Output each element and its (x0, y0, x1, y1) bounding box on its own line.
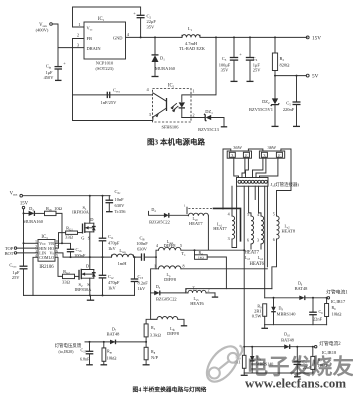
resistor Rvb 10 (45, 206, 63, 243)
node 5V output (274, 75, 276, 77)
capacitor Cvcc2 1uF 25V (9, 263, 27, 296)
node 15V supply (20, 202, 29, 266)
node Vaux (bottom) (10, 192, 23, 198)
op-amp U3 / IC3 IR2106 box (35, 235, 58, 270)
svg-text:5: 5 (180, 243, 182, 248)
wire lamp left wrap (223, 149, 231, 209)
svg-text:3: 3 (228, 236, 230, 241)
svg-text:1: 1 (78, 22, 80, 27)
zener DZ2 BZV55C5V1 (249, 76, 279, 127)
svg-text:HEAT6: HEAT6 (250, 262, 265, 267)
svg-text:470pF: 470pF (108, 240, 120, 245)
svg-text:33Ω: 33Ω (62, 280, 70, 285)
capacitor Cvcc 1nF/25V inline (101, 88, 121, 106)
wire feedback vertical from T1 (151, 293, 157, 319)
svg-text:10kΩ: 10kΩ (332, 311, 343, 316)
capacitor C12 22nF (sense2) (294, 346, 313, 373)
svg-text:450V: 450V (44, 75, 55, 80)
svg-text:8: 8 (182, 263, 184, 268)
wire bold lamp feed (213, 208, 241, 241)
svg-text:IC3: IC3 (41, 235, 48, 240)
wire T1 primary pin1 down (151, 269, 156, 293)
svg-text:36W: 36W (267, 145, 276, 150)
svg-text:36W: 36W (233, 145, 242, 150)
wire right side mesh (272, 239, 277, 289)
svg-text:1kV: 1kV (108, 246, 116, 251)
op-amp U1 / IC1 NCP1010 box (77, 17, 130, 71)
capacitor Cr3 8.2nF 1kV (131, 256, 149, 295)
svg-text:3.3kΩ: 3.3kΩ (150, 332, 162, 337)
svg-text:DIFF8: DIFF8 (164, 277, 177, 282)
capacitor Cr1 470pF 1kV (99, 196, 120, 257)
svg-text:MURA160: MURA160 (23, 219, 44, 224)
resistor R14 sense2 2R1 (234, 346, 246, 373)
svg-text:灯管电压反馈: 灯管电压反馈 (55, 342, 82, 349)
svg-text:1: 1 (154, 263, 156, 268)
winding W2 vertical (247, 212, 254, 249)
svg-text:3: 3 (257, 238, 259, 243)
svg-text:DIFF8: DIFF8 (164, 243, 177, 248)
diode D5 BZG05C22 (151, 284, 188, 301)
svg-text:15V: 15V (312, 36, 321, 42)
svg-text:LO: LO (49, 255, 54, 260)
wire DRAIN (58, 47, 84, 49)
svg-text:IR2106: IR2106 (39, 265, 54, 270)
capacitor C2 22uF 35V (133, 11, 156, 38)
svg-text:4: 4 (156, 243, 158, 248)
svg-text:J1(灯管连接器): J1(灯管连接器) (271, 181, 300, 188)
svg-text:8.2nF: 8.2nF (138, 280, 149, 285)
svg-text:BAT48: BAT48 (281, 337, 295, 342)
svg-text:COM: COM (39, 255, 49, 260)
wire pin1 Vcc loop (73, 7, 141, 27)
svg-text:HEAT8: HEAT8 (282, 228, 296, 233)
svg-text:22nF: 22nF (313, 316, 323, 321)
svg-text:10Ω: 10Ω (54, 206, 62, 211)
ground symbol (90, 295, 92, 300)
svg-text:1mH: 1mH (118, 261, 128, 266)
node 15V output (306, 36, 309, 39)
resistor RG1 33 (55, 225, 83, 248)
svg-text:FB: FB (87, 36, 92, 41)
svg-text:BZV55C13: BZV55C13 (198, 127, 219, 132)
node TOP input (5, 246, 38, 251)
resistor R10 N/P (143, 347, 159, 365)
svg-text:2: 2 (192, 112, 194, 117)
svg-text:5: 5 (273, 212, 275, 217)
svg-text:1: 1 (192, 88, 194, 93)
wire FB vertical (73, 39, 85, 95)
transistor phototransistor inside IC2 (153, 93, 167, 121)
wire dashed coupling line (188, 208, 212, 210)
wire VB net and capacitor Cvb 100nF (55, 242, 86, 257)
svg-text:5V: 5V (312, 74, 319, 80)
capacitor C3 100uF 35V (219, 37, 243, 81)
wire IC2 pin1 drop from rail (182, 37, 216, 101)
zener DZ1 BZV55C13 (198, 109, 227, 132)
svg-text:6: 6 (273, 237, 275, 242)
svg-text:Tc356: Tc356 (115, 209, 127, 214)
resistor RG2 33 (55, 257, 79, 284)
svg-text:IC1: IC1 (98, 17, 105, 22)
transformer T1 primary DIFF8 (154, 251, 267, 282)
winding heater upper-left horizontal HEAT7 (149, 207, 209, 250)
lamp LP2 36W (259, 145, 284, 158)
transistor S2 IRF830A (75, 257, 96, 295)
resistor R9 3.3k (144, 319, 161, 347)
node BOT input (5, 251, 38, 256)
wire feedback to left block (85, 341, 146, 343)
resistor R12 10k (sense2) (311, 347, 328, 373)
ground symbol at T2 (214, 293, 216, 297)
wire GND rail 15V (126, 36, 308, 38)
resistor R13 2R1 0.5W (sense1) (252, 303, 267, 324)
svg-text:25V: 25V (12, 275, 20, 280)
label block HEAT7 / Ls3 Ls4 / HEAT6 (244, 251, 264, 267)
LED inside IC2 (171, 102, 185, 117)
svg-text:灯管电流1: 灯管电流1 (326, 288, 348, 295)
resistor R12b 10k (feedback) (101, 341, 118, 365)
resistor R2 820 (272, 37, 290, 75)
lamp voltage feedback block text (55, 342, 82, 355)
winding W1 HEAT7 vertical (213, 212, 234, 242)
svg-text:BZG05C22: BZG05C22 (156, 296, 177, 301)
connector J1 (237, 178, 300, 188)
transformer T2 heater winding HEAT6 (185, 285, 215, 306)
svg-text:22μF: 22μF (147, 19, 157, 24)
diode D11 MBRS140 (sense2) (250, 346, 273, 373)
svg-text:10nF: 10nF (115, 197, 125, 202)
diode D7 BAT48 (feedback) (107, 326, 121, 344)
svg-text:6: 6 (247, 238, 249, 243)
svg-text:BZV55C5V1: BZV55C5V1 (249, 107, 273, 112)
wire Vaux bus (23, 195, 111, 197)
svg-text:820Ω: 820Ω (280, 62, 291, 67)
svg-text:630V: 630V (137, 247, 148, 252)
inductor L1 4.7mH (179, 26, 206, 51)
wire ground bus (24, 294, 135, 296)
svg-text:SFH6106: SFH6106 (161, 125, 179, 130)
diode D2 MURA160 (23, 206, 44, 224)
watermark logo (201, 341, 244, 387)
inductor Lres 1mH (112, 248, 134, 266)
svg-text:630V: 630V (115, 203, 126, 208)
svg-text:IC2: IC2 (168, 84, 175, 89)
lamp LP1 36W (227, 145, 251, 158)
svg-text:100nF: 100nF (136, 241, 148, 246)
svg-text:MURA160: MURA160 (155, 66, 176, 71)
svg-text:35V: 35V (147, 25, 155, 30)
svg-text:(400V): (400V) (36, 28, 49, 33)
wire lamp1-lamp2 top bridge (248, 149, 263, 151)
svg-text:33Ω: 33Ω (65, 234, 73, 239)
capacitor Cr2 470pF 1kV (99, 257, 120, 295)
svg-text:10kΩ: 10kΩ (107, 356, 118, 361)
wire sense1 feed (186, 289, 272, 298)
svg-text:BOT: BOT (5, 251, 14, 256)
wire lamp bottom leads into connector (234, 158, 239, 177)
current sense 2: diode D10 BAT48 (244, 331, 341, 356)
wire opto pin2 to DZ1 (182, 117, 205, 119)
svg-text:HEAT7: HEAT7 (189, 221, 203, 226)
wire Vaux to vertical (52, 24, 58, 66)
svg-text:15V: 15V (20, 202, 29, 207)
svg-text:TL-RAD EZK: TL-RAD EZK (179, 46, 206, 51)
svg-text:GND: GND (113, 35, 123, 40)
winding W3 vertical (257, 212, 264, 249)
svg-text:1nF/25V: 1nF/25V (101, 100, 118, 105)
wire Cvcc line FB to opto pin4 (73, 94, 153, 96)
svg-text:NCP1010: NCP1010 (96, 61, 114, 66)
capacitor CB 100nF 630V inline (136, 236, 156, 261)
svg-text:HEAT6: HEAT6 (190, 301, 204, 306)
svg-text:25V: 25V (253, 68, 261, 73)
inductor Lfb DIFF8 feedback winding (157, 317, 187, 336)
wire sense2 bus and grounds (244, 372, 313, 374)
svg-text:HEAT7: HEAT7 (213, 226, 227, 231)
current sense 1: diode D6 BAT48 (265, 280, 349, 305)
svg-text:BAT48: BAT48 (107, 331, 121, 336)
svg-text:35V: 35V (221, 68, 229, 73)
svg-text:6.8nF: 6.8nF (80, 357, 90, 362)
wire sense1 bus and ground (265, 324, 327, 326)
wire bottom return to opto pin3 (73, 95, 153, 121)
svg-text:图4 半桥变换器电路与灯网络: 图4 半桥变换器电路与灯网络 (133, 385, 207, 393)
capacitor C5 220nF (283, 75, 301, 127)
wire lamp2 right wrap (277, 149, 292, 216)
svg-text:2: 2 (77, 33, 79, 38)
svg-text:1kV: 1kV (108, 286, 116, 291)
resistor R11 10k (sense1) (325, 298, 343, 325)
svg-text:IRF830A: IRF830A (72, 210, 90, 215)
svg-text:图3 本机电源电路: 图3 本机电源电路 (147, 137, 206, 147)
capacitor C11 22nF (sense1) (309, 297, 323, 325)
transformer T1 aux winding DIFF8 (155, 239, 244, 258)
wire connector down leads (231, 186, 233, 216)
capacitor Cdc 10nF 630V (106, 189, 127, 214)
svg-text:0.5W: 0.5W (252, 314, 263, 319)
svg-text:DRAIN: DRAIN (87, 46, 102, 51)
winding W4 HEAT8 vertical (273, 212, 296, 243)
op-amp U2 / optocoupler IC2 SFH6106 dashed box (146, 84, 194, 130)
svg-text:www.elecfans.com: www.elecfans.com (245, 375, 346, 390)
svg-text:MBRS140: MBRS140 (277, 312, 297, 317)
svg-text:4: 4 (257, 212, 259, 217)
wire Vcc pin stub (24, 242, 39, 244)
resistor R4 1k (194, 249, 227, 288)
svg-text:1kΩ: 1kΩ (198, 256, 205, 260)
capacitor Cin 1uF 450V (44, 61, 67, 81)
wire midpoint rail with node dots (55, 253, 141, 257)
svg-text:5: 5 (247, 212, 249, 217)
transistor S1 IRF830A (72, 196, 96, 257)
capacitor C4 1uF 25V (246, 37, 261, 81)
svg-text:Vaux: Vaux (10, 192, 18, 197)
node Vaux input terminal (36, 23, 53, 33)
diode D1 MURA160 (152, 37, 176, 76)
svg-text:BAT48: BAT48 (295, 286, 309, 291)
svg-text:灯管电流2: 灯管电流2 (319, 340, 341, 347)
svg-text:4: 4 (228, 212, 230, 217)
diode D8 MBRS140 (sense1) (271, 297, 296, 325)
svg-text:IRF830A: IRF830A (75, 287, 93, 292)
svg-text:(SOT223): (SOT223) (96, 66, 115, 71)
capacitor C13 6.8nF (feedback) (80, 341, 93, 365)
svg-text:220nF: 220nF (283, 107, 295, 112)
svg-text:BZG05C22: BZG05C22 (149, 219, 170, 224)
svg-text:1kV: 1kV (138, 286, 146, 291)
svg-text:DIFF8: DIFF8 (167, 331, 180, 336)
svg-text:470pF: 470pF (108, 280, 120, 285)
svg-text:N/P: N/P (151, 355, 158, 360)
wire COM to ground bus (33, 257, 38, 295)
